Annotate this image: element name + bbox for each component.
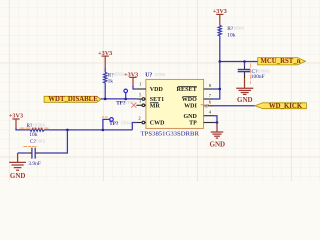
svg-text:RESET: RESET <box>177 86 198 93</box>
ground symbol under chip pins 4/9 <box>211 123 224 139</box>
svg-text:VDD: VDD <box>150 87 164 93</box>
svg-text:GND: GND <box>210 140 226 148</box>
black lead left of C 3.9nF <box>28 152 32 154</box>
pin 4 (GND) <box>204 115 214 117</box>
resistor R? 10k pull-up (vertical) <box>218 25 221 36</box>
svg-text:WDI: WDI <box>184 104 197 110</box>
wire pin 9 TP to node <box>214 122 218 124</box>
pin 5 (SET1) with inversion bubble <box>136 98 146 101</box>
wire node down to pin 8 <box>219 62 221 90</box>
faded bubble on WDI pin <box>205 105 208 108</box>
svg-text:MR: MR <box>150 104 161 110</box>
wire stem of test point TP? (lower) <box>103 119 110 129</box>
svg-text:(U500): (U500) <box>155 73 166 77</box>
no-ERC orange underline on R 10k CWD <box>20 127 49 129</box>
pin name RESET with overline <box>177 86 198 93</box>
svg-text:CWD: CWD <box>150 121 165 127</box>
resistor R? 1k (vertical) <box>104 72 107 82</box>
svg-text:(R5001): (R5001) <box>33 124 46 128</box>
svg-text:GND: GND <box>237 96 253 104</box>
junction at R 10k / MCU_RST_n <box>219 60 222 63</box>
junction at pin 4 / TP tie <box>216 121 219 124</box>
wire pin 7 up to pin 8 node <box>214 89 220 99</box>
wire C 3.9nF to ground <box>18 152 28 154</box>
svg-text:MCU_RST_n: MCU_RST_n <box>260 58 300 65</box>
junction at C 100nF / MCU_RST_n <box>243 60 246 63</box>
capacitor C? 3.9nF (horizontal) <box>32 148 35 159</box>
wire C 3.9nF branch down and left <box>39 130 67 153</box>
wire node to MCU_RST_n port <box>220 61 258 63</box>
wire up to CWD pin 2 <box>132 123 136 130</box>
svg-text:R?: R? <box>227 26 234 32</box>
wire WDI pin to WD_KICK port <box>214 105 255 107</box>
svg-text:U?: U? <box>145 73 152 79</box>
wire +3V3 to R 10k (CWD) <box>16 127 30 130</box>
svg-text:1k: 1k <box>108 79 114 85</box>
pin 9 (TP thermal pad) <box>204 122 214 124</box>
wire pin 4 down to TP node <box>214 116 218 123</box>
pin name WDO with overline <box>182 97 197 104</box>
pin 7 (WDO) <box>204 98 214 100</box>
wire R 1k to WDT_DISABLE net <box>104 83 106 99</box>
svg-text:TP: TP <box>189 121 197 127</box>
junction at pin 8 / pin 7 tie <box>219 88 222 91</box>
wire node down to C 100nF <box>244 62 246 66</box>
ground symbol bottom-left <box>9 153 26 170</box>
power +3V3 symbol (above R 1k) <box>102 56 109 68</box>
test point TP? (lower) pad <box>110 118 114 122</box>
wire R 10k down to MCU_RST_n node <box>219 36 221 62</box>
power +3V3 symbol (above R 10k pull-up) <box>216 14 223 25</box>
svg-text:TP?: TP? <box>109 121 119 127</box>
resistor R? 10k (horizontal, CWD network) <box>30 128 44 131</box>
IC U? body (TPS3851 watchdog supervisor) <box>146 79 204 128</box>
svg-text:WDT_DISABLE: WDT_DISABLE <box>48 96 98 103</box>
no-ERC orange mark above TP stem corner <box>102 116 108 118</box>
port MCU_RST_n <box>258 58 306 65</box>
power +3V3 symbol (bottom-left) <box>12 119 19 127</box>
svg-text:+3V3: +3V3 <box>213 8 227 15</box>
junction at C 3.9nF branch <box>66 129 69 132</box>
pin 6 (WDI) <box>204 105 214 107</box>
ground symbol under C 100nF <box>236 78 253 94</box>
black lead right of C 3.9nF <box>35 152 39 154</box>
wire R 10k to CWD node <box>44 129 132 131</box>
capacitor C? 100nF <box>238 66 251 78</box>
svg-text:+3V3: +3V3 <box>124 71 138 78</box>
svg-text:WD_KICK: WD_KICK <box>269 103 303 110</box>
junction at TP stem / WDT_DISABLE <box>124 98 127 101</box>
port WDT_DISABLE <box>44 96 101 103</box>
svg-text:100nF: 100nF <box>251 74 265 80</box>
wire +3V3 to pin 1 <box>133 86 136 89</box>
svg-text:(R500): (R500) <box>234 27 245 31</box>
wire +3V3 to R 1k <box>104 68 106 72</box>
no-ERC orange mark on WDI pin <box>201 104 209 106</box>
svg-text:WDO: WDO <box>182 97 197 103</box>
wire pin 8 to node <box>214 88 220 90</box>
no-ERC cross on MR pin <box>131 103 136 108</box>
port WD_KICK <box>255 103 307 110</box>
wire WDT_DISABLE to pin 5 <box>101 98 136 100</box>
pin 2 (CWD) with inversion bubble <box>136 121 146 124</box>
svg-text:+3V3: +3V3 <box>9 113 23 120</box>
no-ERC orange mark over C 3.9nF <box>23 146 36 148</box>
svg-text:GND: GND <box>10 172 26 180</box>
svg-text:10k: 10k <box>29 132 37 138</box>
no-ERC orange dashed mark right of C 100nF <box>250 63 252 84</box>
svg-text:+3V3: +3V3 <box>98 50 112 57</box>
power +3V3 symbol (at VDD pin) <box>129 77 136 86</box>
svg-text:SET1: SET1 <box>150 97 164 103</box>
wire stem of test point TP? (upper) <box>125 93 127 99</box>
junction at TP stem (lower) <box>102 129 105 132</box>
svg-text:3.9nF: 3.9nF <box>28 161 40 167</box>
svg-text:(C0603): (C0603) <box>258 69 271 73</box>
svg-text:(TP02): (TP02) <box>125 101 136 105</box>
pin 1 (VDD) <box>136 88 146 90</box>
svg-text:10k: 10k <box>227 33 235 39</box>
pin name MR with overline <box>150 103 161 110</box>
pin 3 (MR) with inversion bubble <box>136 104 146 107</box>
svg-text:GND: GND <box>183 114 197 120</box>
junction at R 1k / WDT_DISABLE <box>104 98 107 101</box>
svg-text:(TP04): (TP04) <box>121 121 132 125</box>
test point TP? (upper) pad <box>124 89 128 93</box>
svg-text:TPS3851G33SDRBR: TPS3851G33SDRBR <box>141 130 200 137</box>
pin 8 (RESET) <box>204 88 214 90</box>
svg-text:(C603): (C603) <box>35 139 46 143</box>
